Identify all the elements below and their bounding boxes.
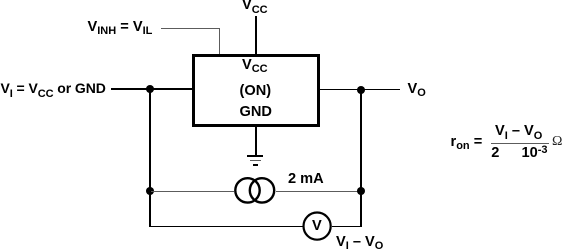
current source I1 2mA	[232, 175, 278, 206]
pin label GND inside box	[240, 105, 272, 120]
node lower-right junction	[357, 187, 365, 195]
wire bottom left	[150, 226, 303, 228]
node input junction	[146, 85, 154, 93]
formula denominator 2	[491, 146, 499, 161]
wire VCC supply to box top	[255, 16, 257, 54]
wire left rail vertical	[149, 89, 151, 227]
wire VINH vertical to box top	[219, 28, 220, 54]
node output junction	[357, 86, 365, 94]
net VO label	[408, 82, 426, 97]
analog switch U1 box	[192, 54, 320, 128]
formula fraction bar	[491, 143, 549, 144]
label 2 mA	[288, 172, 324, 187]
formula denominator 10^-3	[522, 146, 548, 161]
pin label VCC inside box	[242, 58, 268, 73]
wire box output to VO	[320, 89, 401, 91]
wire current source to right rail	[276, 191, 361, 192]
wire right rail vertical	[360, 90, 362, 227]
wire GND pin to ground	[255, 124, 257, 156]
ground symbol	[247, 155, 263, 157]
voltmeter V1	[302, 211, 333, 242]
pin label (ON) inside box	[240, 84, 272, 99]
voltmeter V letter	[312, 219, 322, 234]
formula r_on	[451, 135, 483, 150]
label VI minus VO	[336, 235, 383, 250]
formula numerator	[495, 124, 542, 139]
wire VINH horizontal	[161, 28, 220, 29]
net VINH label	[88, 20, 153, 35]
node lower-left junction	[146, 187, 154, 195]
wire voltmeter to right rail	[332, 226, 362, 228]
formula omega	[552, 135, 562, 149]
net VCC label (top)	[242, 0, 268, 13]
net VI label	[1, 81, 106, 96]
wire VI input to box	[111, 88, 193, 90]
wire junction to current source	[151, 191, 234, 192]
